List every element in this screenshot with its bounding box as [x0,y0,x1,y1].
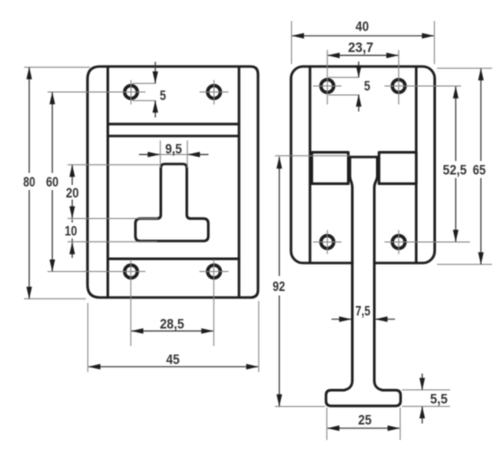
left view upper band line 1 [108,123,239,126]
left view plate outline [88,67,259,298]
dim 5,5 [402,374,450,424]
hole bottom-right [208,265,221,278]
right view left catch block [312,152,349,183]
svg-text:20: 20 [66,185,79,200]
left view left fold line [107,67,110,297]
hole rv top-left [321,80,334,93]
svg-text:25: 25 [358,413,372,428]
dim 5 left view [133,62,167,118]
hole rv top-left crosshair [313,50,342,105]
right view right catch block [379,152,416,183]
right view plate bottom edge break for stem: redraw white gap [354,261,374,266]
dim 7,5 [332,303,396,319]
T pin profile (bridge, stem, foot) [326,157,401,406]
hole top-left [125,86,138,99]
dim 28,5 [132,317,214,332]
svg-text:10: 10 [65,224,78,239]
hole bottom-left [125,265,138,278]
svg-text:5: 5 [364,78,371,93]
svg-text:65: 65 [473,163,486,178]
svg-text:52,5: 52,5 [443,163,467,178]
hole top-right crosshair [200,80,229,105]
right view left fold line [309,67,312,262]
hole rv bottom-right [392,236,405,249]
right view plate outline [291,67,435,264]
svg-text:92: 92 [273,279,286,294]
svg-text:60: 60 [46,175,59,190]
dim 80 [23,67,90,299]
dim 10 [65,220,157,259]
hole rv bottom-right crosshair [385,230,471,254]
svg-text:7,5: 7,5 [355,303,370,318]
hole bottom-left crosshair [48,260,146,347]
svg-text:5,5: 5,5 [430,392,448,407]
svg-text:5: 5 [160,88,167,103]
left view right fold line [238,67,241,297]
dim 65 [437,68,492,264]
dim 5 right view [329,62,371,112]
hole rv top-right [392,80,405,93]
left view upper band line 2 [108,135,239,138]
hole rv bottom-left [321,236,334,249]
dim 20 [66,165,160,219]
dim 40 [292,19,435,64]
hole rv top-right crosshair [385,50,462,105]
svg-text:80: 80 [23,175,35,190]
dim 52,5 [443,87,467,242]
svg-text:23,7: 23,7 [348,40,374,55]
dim 60 [46,92,59,271]
right view right fold line [415,67,418,262]
dim 9,5 [139,141,209,169]
dim 92 [273,156,349,407]
hole top-left crosshair [48,80,146,105]
dim 23,7 [328,40,398,56]
T slot [135,164,208,241]
svg-text:28,5: 28,5 [160,317,185,332]
svg-text:9,5: 9,5 [165,141,182,156]
hole bottom-right crosshair [200,260,229,347]
left view lower band line [108,257,239,260]
hole top-right [208,86,221,99]
dim 45 [88,301,259,372]
svg-text:45: 45 [166,352,180,367]
dim 25 [327,408,400,441]
svg-text:40: 40 [356,19,370,34]
hole rv bottom-left crosshair [313,230,342,254]
